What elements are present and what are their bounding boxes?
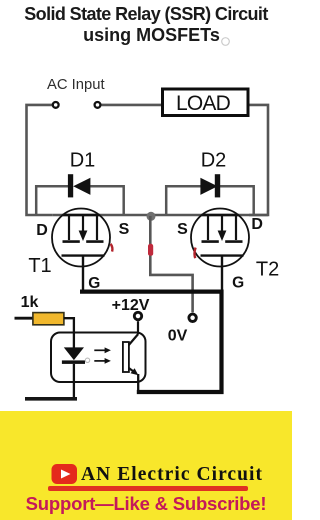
wire AC right to LOAD	[101, 104, 162, 107]
title	[0, 4, 292, 46]
svg-text:D2: D2	[201, 150, 227, 172]
svg-text:S: S	[119, 221, 130, 238]
svg-text:1k: 1k	[21, 294, 39, 311]
svg-text:+12V: +12V	[112, 297, 150, 314]
terminal 0V	[189, 314, 196, 321]
red mark on T1 edge	[111, 244, 113, 252]
svg-text:AC Input: AC Input	[47, 77, 105, 93]
light arrows	[94, 350, 105, 361]
wire LED cathode bottom stub	[25, 397, 77, 401]
wire junction to 0V terminal	[150, 216, 192, 312]
svg-text:D: D	[36, 222, 48, 239]
svg-text:T1: T1	[28, 255, 51, 277]
terminal AC right	[95, 102, 101, 108]
red streak on 0V wire	[148, 244, 153, 256]
diode D2	[200, 174, 220, 197]
svg-text:0V: 0V	[168, 328, 188, 345]
svg-text:G: G	[232, 274, 244, 291]
wire AC left to left rail down to T1 drain	[27, 105, 53, 215]
svg-text:S: S	[177, 221, 188, 238]
LED inside optocoupler	[62, 347, 85, 364]
bottom banner	[0, 411, 292, 520]
gate drive loop (thick)	[80, 292, 222, 392]
resistor R1 lead left	[15, 317, 34, 320]
wire D1 loop	[36, 186, 124, 215]
red mark on T2 edge	[194, 248, 195, 259]
wire LOAD to right rail down to T2 drain	[249, 105, 269, 215]
svg-text:T2: T2	[256, 259, 279, 281]
resistor R1 body	[33, 313, 64, 325]
junction node dot	[147, 212, 156, 221]
LOAD box	[163, 89, 249, 116]
terminal +12V	[134, 312, 141, 319]
svg-text:D1: D1	[70, 150, 96, 172]
artifact ring after title	[222, 38, 230, 46]
phototransistor Q1	[123, 342, 129, 372]
optocoupler U1 box	[51, 333, 146, 383]
channel name	[81, 465, 263, 485]
diode D1	[68, 174, 91, 197]
subscribe line	[0, 493, 292, 515]
svg-text:LOAD: LOAD	[176, 92, 231, 115]
artifact ring near LED	[85, 358, 89, 362]
svg-text:G: G	[88, 275, 100, 292]
wire emitter down to loop	[137, 374, 139, 392]
svg-text:D: D	[251, 216, 263, 233]
youtube icon	[0, 411, 292, 520]
mosfet T2	[191, 209, 249, 292]
wire D2 loop	[166, 186, 254, 215]
mosfet T1	[52, 209, 110, 292]
circuit schematic	[0, 0, 292, 411]
wire LED cathode down	[73, 364, 75, 397]
wire +12V to collector	[137, 321, 139, 334]
terminal AC left	[53, 102, 59, 108]
wire drain-source bus through T1 and T2	[52, 214, 268, 216]
red underline	[48, 486, 248, 491]
resistor R1 lead right down to LED anode	[64, 318, 74, 348]
